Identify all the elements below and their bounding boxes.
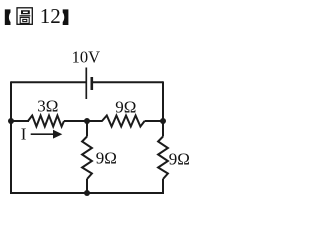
wire right vertical lower [162, 179, 164, 193]
wire middle vertical lower stub [86, 179, 88, 193]
node C junction dot right [160, 118, 166, 124]
title CJK glyph tu (figure) outer box [17, 8, 32, 25]
wire left vertical side [10, 81, 12, 193]
wire middle branch left stub [11, 120, 29, 122]
wire 3ohm to middle node [64, 120, 103, 122]
wire right vertical upper [162, 81, 164, 136]
title bracket right [63, 9, 69, 25]
title CJK glyph top mouth element [21, 10, 30, 14]
svg-text:3Ω: 3Ω [37, 97, 58, 116]
resistor R4 9ohm right vertical zigzag [158, 137, 168, 180]
svg-text:I: I [21, 124, 27, 143]
wire middle vertical upper stub [86, 121, 88, 137]
svg-text:9Ω: 9Ω [96, 148, 117, 167]
node A junction dot left [8, 118, 14, 124]
node D junction dot bottom [84, 190, 90, 196]
wire bottom side [10, 192, 164, 194]
title bracket left [5, 9, 11, 25]
battery V1 short thick plate [91, 77, 94, 90]
current arrow head [53, 130, 62, 139]
title CJK glyph bottom hui outer [20, 17, 29, 23]
node B junction dot middle [84, 118, 90, 124]
title CJK glyph middle bar [20, 15, 31, 16]
svg-text:9Ω: 9Ω [115, 98, 136, 117]
current arrow shaft [31, 133, 54, 135]
title CJK glyph bottom hui inner [23, 19, 27, 21]
wire top-left segment to battery [11, 81, 86, 83]
resistor R2 9ohm horizontal zigzag [102, 116, 145, 127]
svg-text:10V: 10V [72, 48, 101, 67]
wire battery to top-right corner [92, 81, 163, 83]
resistor R1 3ohm horizontal zigzag [28, 116, 64, 127]
svg-text:12: 12 [40, 4, 61, 28]
battery V1 long plate [85, 68, 87, 100]
svg-text:9Ω: 9Ω [169, 149, 190, 168]
wire 9ohm to right node [145, 120, 163, 122]
resistor R3 9ohm middle vertical zigzag [82, 137, 92, 180]
